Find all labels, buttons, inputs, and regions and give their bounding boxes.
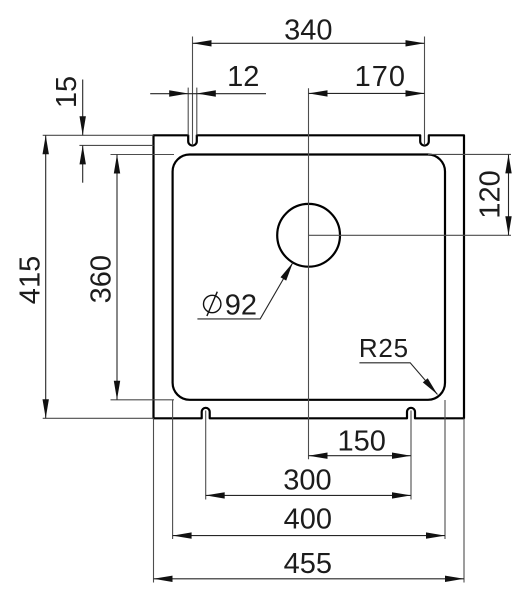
- arrows 170: [309, 90, 328, 96]
- arrows 12 (outside): [169, 90, 188, 96]
- svg-text:360: 360: [85, 255, 117, 303]
- left slot wall extensions: [187, 88, 189, 136]
- bowl top extension right: [428, 153, 511, 155]
- svg-text:120: 120: [475, 170, 507, 218]
- dimension lines: [46, 43, 509, 579]
- arrow leader diameter 92: [281, 263, 293, 281]
- svg-text:12: 12: [227, 61, 259, 93]
- arrows 300: [206, 492, 225, 498]
- bowl bottom extension left: [111, 399, 175, 401]
- svg-text:415: 415: [14, 256, 46, 304]
- leader diameter 92: [197, 263, 293, 319]
- arrows 400: [173, 532, 192, 538]
- bowl left edge extension down: [172, 400, 174, 539]
- bowl right edge extension down: [444, 400, 446, 539]
- svg-text:400: 400: [284, 504, 332, 536]
- top edge extension left: [43, 134, 154, 136]
- dim line 170: [309, 92, 425, 94]
- vertical centreline: [308, 88, 310, 459]
- outer sink rim outline with top mounting slots and bottom notches: [154, 135, 465, 418]
- drain hole circle: [277, 204, 340, 267]
- dim line 340: [193, 42, 425, 44]
- bowl top extension left: [111, 154, 175, 156]
- svg-text:455: 455: [284, 548, 332, 580]
- svg-text:170: 170: [355, 61, 406, 93]
- outer left edge extension down: [153, 418, 155, 582]
- arrows 150: [309, 453, 328, 459]
- arrows 340: [193, 40, 212, 46]
- dim line 415: [45, 135, 47, 418]
- dim line 360: [116, 155, 118, 400]
- leader R25: [359, 363, 437, 395]
- dim line 455: [154, 578, 465, 580]
- svg-text:R25: R25: [359, 333, 409, 363]
- dim line 15 upper and lower: [82, 80, 84, 136]
- right slot centre extension: [424, 37, 426, 146]
- right notch centre extension down: [410, 411, 412, 500]
- bottom edge extension left: [43, 417, 154, 419]
- dim line 300: [206, 494, 411, 496]
- diameter symbol: [204, 292, 221, 316]
- outer right edge extension down: [463, 418, 465, 582]
- dim line 12: [150, 93, 266, 95]
- arrows 455: [154, 576, 173, 582]
- arrows 360: [114, 155, 120, 174]
- dim line 150: [309, 455, 412, 457]
- arrows 15 (outside): [80, 116, 86, 135]
- slot bottom extension left (15 dim): [79, 144, 153, 146]
- left notch centre extension down: [205, 411, 207, 500]
- svg-text:92: 92: [225, 290, 257, 322]
- svg-text:340: 340: [284, 14, 332, 46]
- bowl rounded rectangle: [173, 155, 445, 400]
- arrow leader R25: [423, 378, 438, 394]
- svg-text:15: 15: [51, 76, 83, 108]
- arrows 120: [505, 154, 511, 173]
- left slot centre extension: [192, 37, 194, 146]
- dim line 120: [508, 154, 510, 235]
- arrows 415: [43, 135, 49, 154]
- svg-text:300: 300: [283, 464, 331, 496]
- dim line 400: [173, 535, 445, 537]
- svg-text:150: 150: [338, 426, 386, 458]
- drain centre horizontal extension: [309, 234, 511, 236]
